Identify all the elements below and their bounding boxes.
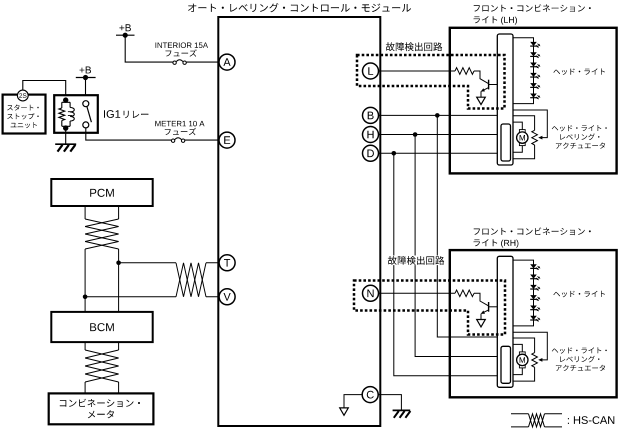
wire H branch down to RH [415, 135, 497, 357]
ground (module C) [393, 409, 411, 411]
relay coil inductor [70, 108, 74, 127]
relay coil bottom node [62, 121, 70, 129]
wire +B to relay contact [85, 78, 87, 101]
wire relay coil to ground [65, 128, 67, 144]
wire N to fault-detect resistor (RH) [378, 292, 455, 294]
signal ground (emitter) [477, 320, 486, 327]
label fault detection circuit (RH) [386, 256, 447, 266]
start/stop unit box [3, 95, 46, 134]
emitter with arrow [482, 88, 488, 91]
relay coil top node [62, 100, 70, 108]
terminal D [363, 145, 379, 161]
wire motor plus (LH) [513, 122, 522, 130]
label headlight leveling actuator (RH) [552, 347, 607, 353]
CAN twisted pair to module T/V [85, 263, 176, 297]
wire fuse to terminal A [186, 61, 219, 63]
LED 1 headlight (RH) [530, 264, 537, 268]
junction D branch [392, 151, 397, 156]
connector 2S [17, 90, 28, 101]
LED 3 headlight (RH) [530, 285, 537, 289]
wire resistor to transistor base [474, 293, 488, 305]
transistor Q fault detect [488, 80, 490, 90]
wire position sensor bottom (RH) [513, 367, 535, 381]
junction B branch [435, 113, 440, 118]
wire D branch down to RH [394, 153, 498, 375]
wire headlight LED chain (RH) [513, 260, 534, 326]
label headlight (RH) [553, 291, 605, 298]
wiper arrow (RH) [538, 358, 542, 362]
wire collector to connector [489, 306, 498, 308]
wire relay contact to METER1 fuse [86, 128, 172, 140]
front combination light (RH) box [450, 250, 617, 397]
front combination light (LH) box [450, 28, 617, 174]
label combination meter [60, 399, 140, 407]
wire headlight LED chain (LH) [513, 38, 534, 104]
LED 4 headlight (LH) [530, 73, 537, 77]
emitter with arrow [482, 310, 488, 313]
label front combination light (RH) line2 [474, 239, 498, 246]
wire start-stop unit 2S to relay coil [23, 81, 66, 99]
connector strip (RH) [497, 256, 513, 387]
junction CAN-H to T [116, 261, 121, 266]
wire +B to INTERIOR fuse [125, 35, 173, 62]
terminal H [363, 127, 379, 143]
LED 5 headlight (LH) [530, 83, 537, 87]
wire D to connector (LH) [378, 152, 497, 154]
junction H branch [413, 132, 418, 137]
wire position sensor top (RH) [513, 338, 535, 353]
relay contact (switch) [83, 101, 89, 107]
relay coil resistor [59, 108, 65, 121]
label: auto leveling control module [188, 3, 411, 12]
terminal A [219, 54, 235, 70]
label IG1 relay [104, 110, 120, 118]
label METER1 10 A fuse [155, 121, 204, 127]
fault detection circuit dotted box (LH) [357, 55, 505, 109]
connector strip (LH) [497, 34, 513, 165]
fuse INTERIOR 15A [173, 61, 176, 64]
junction CAN-L to V [83, 295, 88, 300]
actuator connector (RH) [501, 346, 511, 383]
combination meter box [49, 393, 154, 424]
terminal L [363, 63, 379, 79]
CAN twisted pair BCM to combination meter [85, 342, 119, 350]
legend text HS-CAN [568, 416, 614, 424]
LED 2 headlight (RH) [530, 275, 537, 279]
transistor Q fault detect [488, 302, 490, 312]
wire B branch down to RH [437, 115, 497, 337]
label front combination light (LH) line2 [474, 16, 498, 23]
wire B to connector (LH) [378, 114, 497, 116]
motor M (RH) [519, 352, 525, 355]
PCM box [51, 179, 152, 206]
LED 6 headlight (RH) [530, 316, 537, 320]
wiper arrow (LH) [538, 136, 542, 140]
signal ground (C left) [340, 408, 349, 415]
LED 1 headlight (LH) [530, 42, 537, 46]
LED 6 headlight (LH) [530, 94, 537, 98]
fault-detect resistor (RH) [455, 290, 474, 297]
CAN twisted pair PCM to BCM [85, 207, 119, 220]
fault detection circuit dotted box (RH) [354, 281, 505, 335]
relay IG1 box [54, 95, 98, 133]
position sensor resistor (RH) [532, 353, 538, 368]
fuse METER1 10A [171, 139, 174, 142]
wire resistor to transistor base [474, 71, 488, 83]
label front combination light (RH) line1 [474, 227, 591, 235]
ground (relay coil) [55, 143, 76, 145]
terminal T [219, 255, 235, 271]
label INTERIOR 15A fuse [156, 43, 209, 49]
BCM box [51, 312, 152, 342]
terminal B [363, 107, 379, 123]
wire motor plus (RH) [513, 344, 522, 352]
signal ground (emitter) [477, 97, 486, 104]
LED 3 headlight (LH) [530, 63, 537, 67]
wire position sensor bottom (LH) [513, 145, 535, 159]
wire L to fault-detect resistor (LH) [378, 70, 455, 72]
position sensor resistor (LH) [532, 130, 538, 145]
wire H to connector (LH) [378, 134, 497, 136]
LED 4 headlight (RH) [530, 295, 537, 299]
label headlight (LH) [553, 68, 605, 75]
actuator connector (LH) [501, 124, 511, 161]
wire wiper (LH) [513, 110, 547, 138]
wire fuse to terminal E [185, 139, 220, 141]
motor M (LH) [519, 130, 525, 133]
wire collector to connector [489, 84, 498, 86]
label start/stop unit [7, 105, 39, 111]
wire C to signal ground [344, 395, 362, 408]
terminal N [363, 285, 379, 301]
fault-detect resistor (LH) [455, 68, 474, 75]
wire motor minus (LH) [513, 146, 522, 153]
label headlight leveling actuator (LH) [552, 125, 607, 131]
terminal V [219, 289, 235, 305]
legend HS-CAN twisted pair [511, 414, 529, 427]
label front combination light (LH) line1 [474, 4, 591, 12]
LED 2 headlight (LH) [530, 52, 537, 56]
LED 5 headlight (RH) [530, 305, 537, 309]
wire position sensor top (LH) [513, 116, 535, 131]
wire motor minus (RH) [513, 368, 522, 375]
power +B (battery, top) [119, 24, 130, 31]
terminal C [362, 387, 378, 403]
auto leveling control module box [218, 17, 380, 426]
wire C to chassis ground [378, 395, 401, 411]
wire wiper (RH) [513, 332, 547, 360]
terminal E [219, 132, 235, 148]
power +B (relay) [80, 67, 92, 74]
label fault detection circuit (LH) [384, 43, 444, 53]
